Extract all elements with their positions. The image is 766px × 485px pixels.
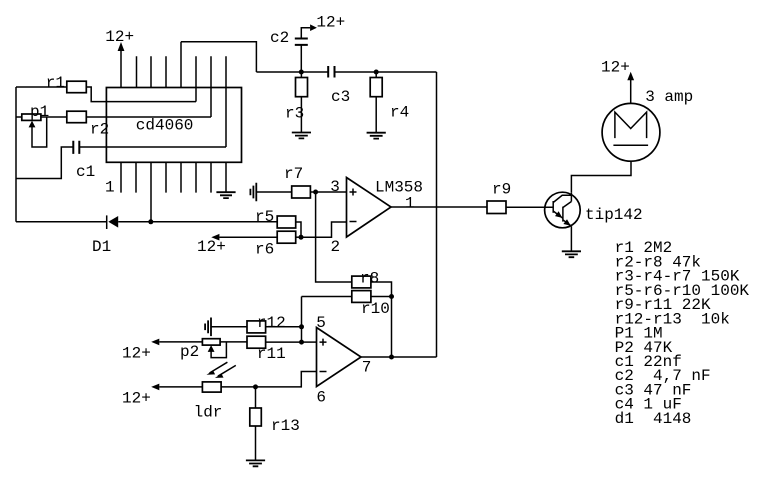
wire ground to r7	[256, 191, 291, 193]
svg-text:c3: c3	[331, 88, 350, 106]
wire r9 to transistor base	[506, 206, 553, 208]
supply arrow 12+ at ldr	[122, 384, 159, 408]
wire op-amp1 output to r9	[391, 206, 487, 208]
wire r6 right	[296, 236, 301, 238]
wire p1 to r2	[41, 116, 67, 118]
resistor R9	[487, 181, 511, 214]
wire r3 to ground	[300, 97, 302, 133]
svg-text:2: 2	[331, 238, 341, 256]
resistor R11	[247, 336, 286, 363]
supply arrow 12+ at p2	[122, 339, 159, 363]
svg-text:1: 1	[105, 179, 115, 197]
wire r1 left	[16, 86, 67, 88]
wire r7 to pin3	[310, 191, 346, 193]
svg-text:tip142: tip142	[585, 206, 643, 224]
wire emitter to ground	[570, 226, 572, 251]
wire r2 right into IC	[86, 116, 211, 118]
wire 12+ to r6	[219, 236, 277, 238]
capacitor C1	[73, 141, 95, 181]
wire p1 row left	[16, 116, 22, 118]
ground at IC pin	[216, 192, 235, 198]
svg-text:1: 1	[405, 194, 415, 212]
wire r13 top	[255, 387, 257, 408]
svg-text:12+: 12+	[316, 14, 345, 32]
wire r8 right jog	[371, 282, 392, 297]
svg-text:5: 5	[316, 314, 326, 332]
svg-text:12+: 12+	[122, 389, 151, 407]
wire r12 right	[266, 326, 302, 328]
svg-text:r6: r6	[255, 240, 274, 258]
node junction r7/pin3	[313, 190, 318, 195]
motor M1	[602, 88, 693, 161]
transistor Q1 tip142	[545, 192, 643, 228]
svg-text:LM358: LM358	[375, 179, 423, 197]
wire D1 row	[16, 221, 277, 223]
resistor R4	[370, 72, 409, 122]
value list	[615, 239, 750, 428]
op-amp U2A LM358	[347, 178, 424, 238]
svg-text:cd4060: cd4060	[136, 116, 194, 134]
wire vertical r7 node to r8	[316, 192, 352, 282]
potentiometer P2	[180, 339, 226, 361]
node junction r11/pin5	[299, 340, 304, 345]
node junction r4	[374, 70, 379, 75]
op-amp U2B	[316, 328, 371, 407]
svg-text:r7: r7	[284, 165, 303, 183]
supply arrow 12+ at motor	[601, 58, 634, 103]
svg-text:p2: p2	[180, 343, 199, 361]
wire r5 right jog	[296, 222, 301, 237]
wire top bus	[256, 71, 436, 73]
ground at r7	[250, 183, 256, 202]
svg-text:6: 6	[316, 388, 326, 406]
svg-text:12+: 12+	[601, 58, 630, 76]
svg-text:p1: p1	[30, 103, 49, 121]
svg-text:c2: c2	[270, 29, 289, 47]
svg-text:12+: 12+	[197, 238, 226, 256]
svg-text:3: 3	[330, 178, 340, 196]
wire r1 right jog into IC	[86, 87, 196, 102]
svg-text:12+: 12+	[105, 28, 134, 46]
ground at r13	[246, 460, 265, 466]
wire c1 branch from left rail	[16, 147, 73, 179]
svg-text:D1: D1	[92, 238, 111, 256]
svg-text:r9: r9	[492, 181, 511, 199]
wire c1 right into IC	[79, 146, 226, 148]
svg-text:r10: r10	[361, 300, 390, 318]
svg-text:r11: r11	[257, 345, 286, 363]
svg-text:r13: r13	[271, 417, 300, 435]
LDR R14	[194, 362, 236, 421]
capacitor C2	[270, 29, 308, 47]
svg-text:d1 4148: d1 4148	[615, 410, 692, 428]
svg-text:r1: r1	[46, 74, 65, 92]
resistor R12	[247, 314, 286, 333]
wire r10 left	[302, 296, 352, 298]
capacitor C3	[328, 66, 350, 106]
svg-text:3 amp: 3 amp	[645, 88, 693, 106]
node junction feedback/output2	[389, 355, 394, 360]
wire motor to transistor collector	[571, 161, 631, 192]
svg-text:c1: c1	[76, 163, 95, 181]
wire 12+ to ldr	[159, 386, 202, 388]
resistor R7	[284, 165, 310, 198]
supply arrow 12+ at r6	[197, 234, 226, 256]
wire r4 to ground	[375, 97, 377, 133]
IC bottom pins	[121, 162, 226, 222]
resistor R8	[352, 269, 379, 288]
ground at emitter	[562, 251, 581, 257]
node junction r13	[253, 384, 258, 389]
supply arrow 12+ at IC	[105, 28, 134, 51]
ground at r4	[367, 133, 386, 139]
svg-text:7: 7	[362, 358, 372, 376]
svg-text:r8: r8	[360, 269, 379, 287]
node junction r12	[299, 324, 304, 329]
resistor R2	[67, 111, 109, 138]
wire r10 left vertical	[301, 297, 303, 343]
wire op-amp2 output	[361, 356, 437, 358]
IC U1 cd4060 body	[106, 88, 241, 163]
wire feedback vertical to output2	[391, 297, 393, 358]
svg-text:r12: r12	[257, 314, 286, 332]
svg-text:r4: r4	[390, 104, 409, 122]
wire r11 right	[266, 341, 302, 343]
wire pin5	[302, 341, 317, 343]
IC top pins	[121, 42, 226, 147]
resistor R10	[352, 291, 390, 318]
ground at r12	[205, 318, 211, 337]
ground at r3	[292, 133, 311, 139]
resistor R13	[250, 408, 300, 435]
wire ground to r12	[211, 326, 247, 328]
resistor R1	[46, 74, 87, 93]
wire left rail vertical	[15, 87, 17, 222]
potentiometer P1	[22, 103, 49, 147]
svg-text:12+: 12+	[122, 345, 151, 363]
wire p2 to r11	[220, 341, 247, 343]
wire IC to c2 bus	[181, 42, 256, 72]
resistor R6	[255, 231, 296, 258]
wire c2 down to bus	[300, 45, 302, 72]
wire 12+ to p2	[159, 341, 202, 343]
node junction r5/r6	[299, 235, 304, 240]
resistor R5	[255, 208, 296, 228]
node junction r8/r10	[389, 294, 394, 299]
wire r13 to ground	[255, 426, 257, 460]
node junction D1/IC	[148, 219, 153, 224]
svg-text:ldr: ldr	[194, 403, 223, 421]
diode D1	[92, 215, 118, 256]
wire r10 right	[371, 296, 392, 298]
node junction c2/r3	[299, 70, 304, 75]
supply arrow 12+ at c2	[301, 14, 345, 39]
wire pin6 jog	[221, 372, 316, 387]
wire pin2 jog to op-amp	[301, 222, 347, 237]
resistor R3	[285, 72, 308, 123]
svg-text:r5: r5	[255, 208, 274, 226]
wire long vertical bus to output2	[436, 72, 438, 357]
